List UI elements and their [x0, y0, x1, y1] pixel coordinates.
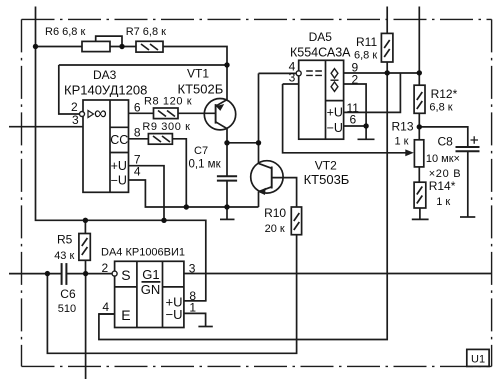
svg-text:КТ503Б: КТ503Б: [304, 172, 350, 187]
svg-text:3: 3: [72, 113, 79, 127]
svg-text:К554СА3А: К554СА3А: [290, 46, 351, 60]
svg-text:4: 4: [102, 300, 109, 314]
svg-text:R10: R10: [264, 206, 286, 220]
svg-text:0,1 мк: 0,1 мк: [189, 159, 222, 171]
svg-text:3: 3: [189, 262, 196, 276]
svg-text:CC: CC: [110, 133, 128, 147]
svg-text:DA4 КР1006ВИ1: DA4 КР1006ВИ1: [101, 247, 185, 259]
svg-text:DA3: DA3: [93, 68, 117, 82]
svg-text:C6: C6: [60, 287, 76, 301]
svg-text:R6 6,8 к: R6 6,8 к: [45, 26, 85, 38]
svg-text:43 к: 43 к: [54, 250, 74, 262]
svg-text:R14*: R14*: [429, 179, 456, 193]
svg-text:КТ502Б: КТ502Б: [178, 82, 224, 97]
svg-text:U1: U1: [471, 354, 485, 366]
svg-text:R12*: R12*: [431, 87, 458, 101]
svg-text:4: 4: [134, 165, 141, 179]
svg-text:R7 6,8 к: R7 6,8 к: [126, 26, 166, 38]
svg-text:∞: ∞: [94, 103, 107, 123]
svg-text:S: S: [121, 267, 130, 283]
svg-text:6,8 к: 6,8 к: [429, 102, 452, 114]
svg-text:E: E: [121, 307, 130, 323]
svg-text:20 к: 20 к: [265, 223, 285, 235]
svg-text:G1: G1: [142, 267, 159, 282]
svg-text:2: 2: [71, 100, 78, 114]
svg-text:R9 300 к: R9 300 к: [142, 121, 190, 133]
svg-text:8: 8: [134, 126, 141, 140]
svg-text:DA5: DA5: [309, 30, 333, 44]
svg-text:2: 2: [102, 261, 109, 275]
svg-text:1 к: 1 к: [395, 136, 409, 148]
svg-text:КР140УД1208: КР140УД1208: [64, 83, 147, 98]
svg-text:R13: R13: [392, 120, 414, 134]
svg-text:R8 120 к: R8 120 к: [144, 96, 192, 108]
svg-text:1 к: 1 к: [436, 196, 450, 208]
svg-text:−U: −U: [166, 307, 183, 322]
svg-text:C7: C7: [194, 145, 208, 157]
svg-text:3: 3: [289, 71, 296, 85]
svg-text:+U: +U: [111, 159, 127, 173]
svg-text:510: 510: [58, 303, 76, 315]
svg-text:R5: R5: [57, 233, 73, 247]
svg-text:VT2: VT2: [315, 159, 337, 173]
svg-text:2: 2: [352, 73, 359, 87]
svg-text:6: 6: [134, 101, 141, 115]
svg-text:−U: −U: [327, 121, 343, 135]
svg-text:10 мк×: 10 мк×: [426, 153, 460, 165]
svg-text:C8: C8: [438, 135, 454, 149]
svg-text:R11: R11: [356, 35, 377, 49]
svg-text:−U: −U: [111, 174, 127, 188]
svg-text:GN: GN: [141, 282, 161, 297]
svg-text:6: 6: [350, 113, 357, 127]
svg-text:1: 1: [189, 301, 196, 315]
svg-text:+U: +U: [327, 106, 343, 120]
svg-text:VT1: VT1: [187, 67, 209, 81]
